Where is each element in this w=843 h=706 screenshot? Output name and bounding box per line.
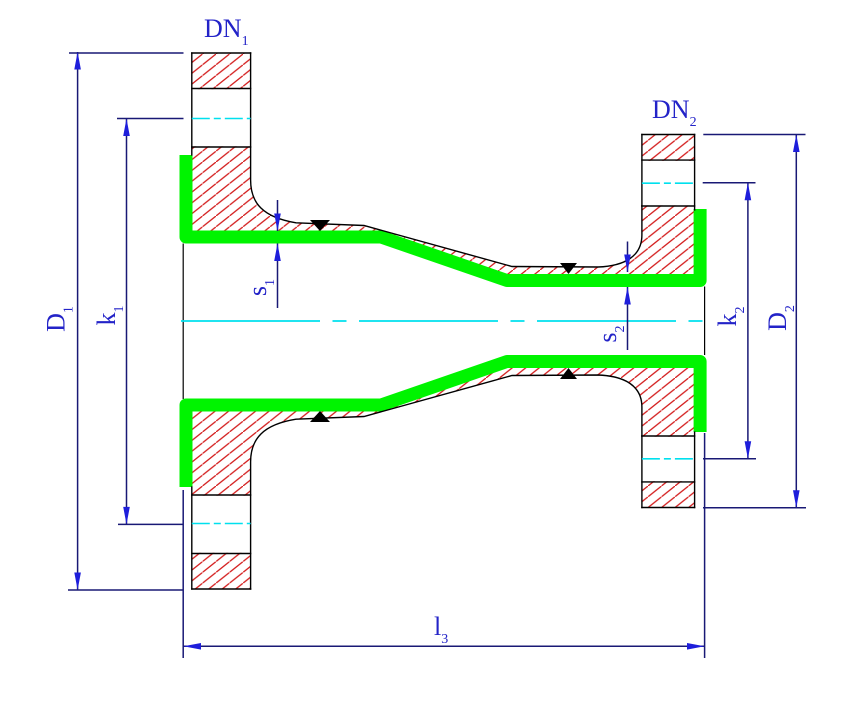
flange DN2 outline upper (642, 135, 695, 210)
flange DN1 outline lower (192, 375, 642, 589)
weld symbol lower right (560, 368, 577, 379)
weld symbol upper right (560, 263, 577, 274)
dimension l3 (183, 433, 704, 658)
PTFE lining upper half (green) (186, 155, 700, 281)
dimension s2 (lining thickness) (593, 242, 631, 351)
dimension s1 (lining thickness) (243, 200, 281, 308)
bolt hole band flange DN2 upper (white) (641, 161, 696, 206)
bolt hole band flange DN1 upper (white) (191, 89, 252, 146)
weld symbol upper left (310, 220, 330, 231)
reducer body steel section upper half (hatched) (192, 53, 695, 281)
lining face edge line left (182, 244, 184, 400)
weld symbol lower left (310, 411, 330, 422)
bolt hole band flange DN1 lower (white) (191, 496, 252, 553)
flange DN2 outline lower (642, 432, 695, 507)
lining face edge line right (704, 287, 706, 356)
PTFE lining lower half (green) (186, 362, 700, 488)
flange DN1 outline upper (192, 53, 642, 267)
dimension D2 (703, 135, 806, 508)
bolt hole band flange DN2 lower (white) (641, 437, 696, 482)
bolt circle centerline DN1 upper (192, 118, 251, 120)
reducer body steel section lower half (hatched) (192, 361, 695, 589)
dimension D1 (41, 52, 183, 590)
bolt circle centerline DN2 upper (642, 182, 695, 184)
dimension k2 (703, 183, 756, 459)
dimension k1 (92, 119, 184, 525)
bolt circle centerline DN1 lower (192, 523, 251, 525)
bolt circle centerline DN2 lower (642, 458, 695, 460)
main centerline (cyan dash-dot) (181, 320, 705, 322)
